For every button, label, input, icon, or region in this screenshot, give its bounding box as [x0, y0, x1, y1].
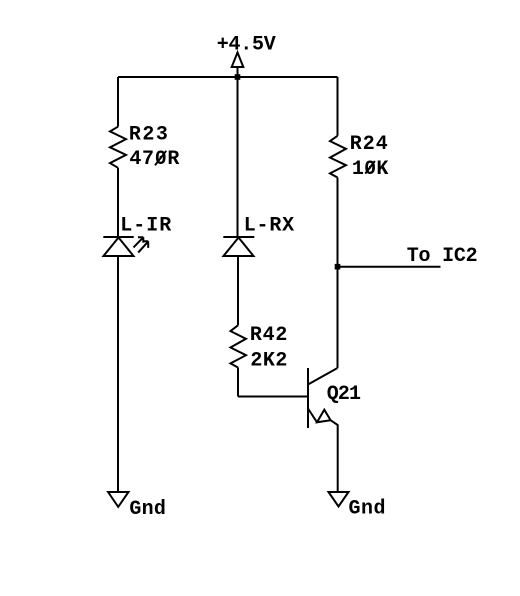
svg-text:L-RX: L-RX [244, 215, 295, 238]
resistor R23 [110, 127, 126, 168]
LED emission arrow 2 [138, 241, 148, 252]
transistor Q21 base bar [307, 368, 309, 428]
slash of zero in 10K [365, 161, 375, 174]
wire middle branch lower to base [237, 368, 239, 397]
LED emission arrow 1 [134, 237, 144, 247]
svg-text:Gnd: Gnd [129, 498, 166, 521]
wire right branch R24 to collector [337, 178, 339, 369]
svg-text:+4.5V: +4.5V [217, 34, 276, 57]
node junction at +4.5V rail [235, 74, 241, 80]
wire top horizontal rail [118, 76, 338, 78]
svg-text:R42: R42 [250, 324, 288, 347]
resistor R24 [330, 136, 346, 178]
power symbol +4.5V arrow [232, 53, 244, 78]
wire left branch lower [117, 256, 119, 492]
svg-text:Gnd: Gnd [349, 498, 386, 521]
resistor R42 [231, 325, 247, 367]
photodiode L-RX [223, 237, 254, 256]
svg-text:L-IR: L-IR [120, 214, 171, 237]
LED L-IR diode [103, 237, 133, 256]
wire To IC2 stub [338, 266, 441, 268]
svg-text:R24: R24 [350, 133, 388, 156]
svg-text:Q21: Q21 [327, 383, 361, 406]
transistor Q21 emitter with arrowhead [308, 409, 338, 492]
slash of zero in 470R [155, 151, 166, 166]
node junction To IC2 [335, 264, 341, 270]
transistor Q21 collector diagonal [308, 368, 338, 385]
wire middle branch upper [237, 77, 239, 237]
wire middle branch between L-RX and R42 [237, 256, 239, 325]
ground right [329, 492, 349, 507]
svg-text:2K2: 2K2 [250, 350, 287, 373]
wire left branch upper [117, 77, 119, 127]
svg-text:R23: R23 [129, 124, 168, 147]
svg-text:To IC2: To IC2 [407, 245, 478, 268]
wire base horizontal [238, 396, 308, 398]
svg-text:10K: 10K [352, 158, 389, 181]
wire right branch upper [337, 77, 339, 136]
ground left [108, 492, 128, 507]
wire left branch between R23 and LED [117, 168, 119, 237]
svg-text:470R: 470R [129, 148, 179, 171]
